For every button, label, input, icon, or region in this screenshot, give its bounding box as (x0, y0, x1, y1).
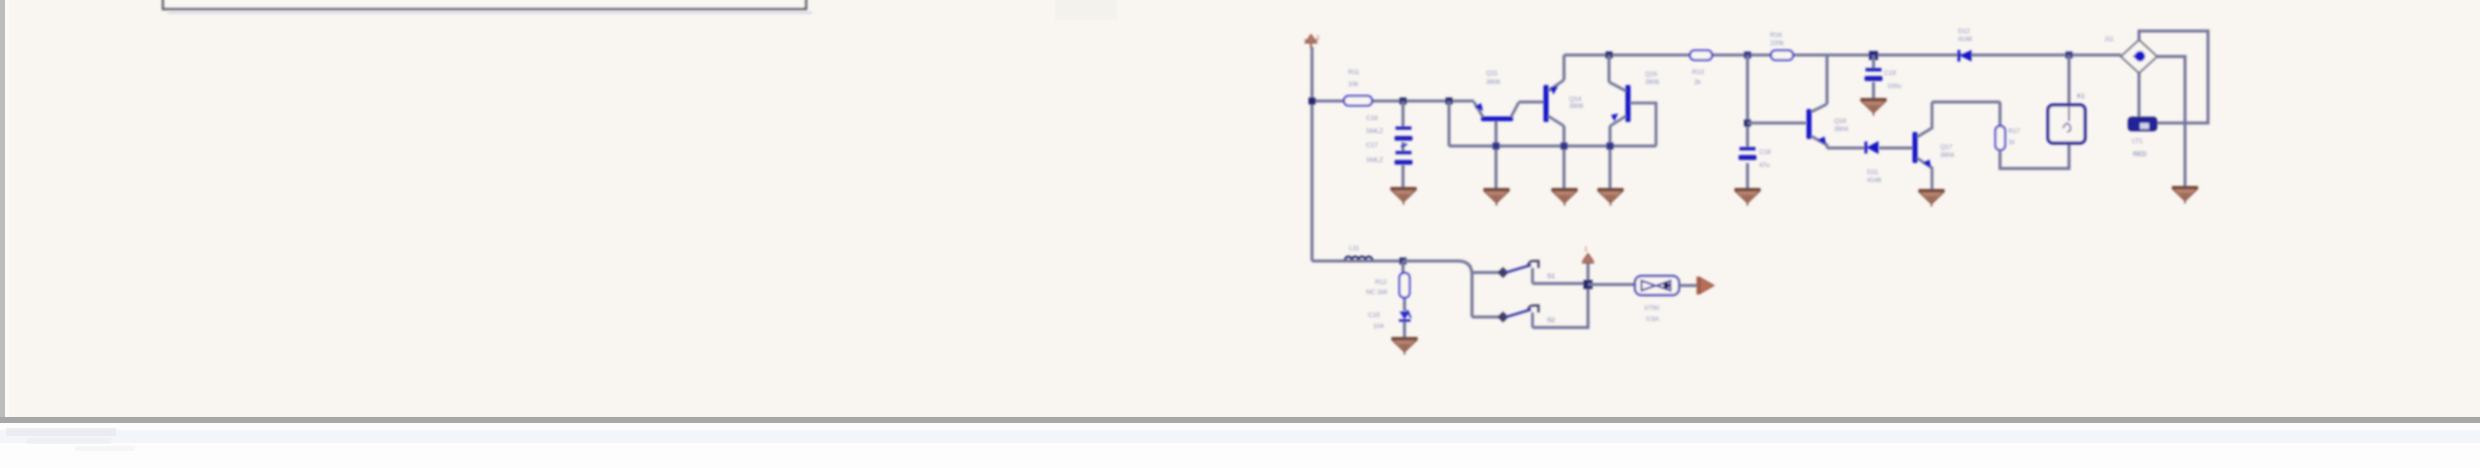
wire: Q16 emitter to D11 (1827, 147, 1866, 150)
wire: upper switch feed (1472, 271, 1499, 274)
wire: NTC branch stem (1403, 261, 1405, 337)
ground (Q17) (1919, 189, 1945, 207)
svg-text:D11: D11 (1867, 169, 1879, 176)
capacitor C19 (1865, 68, 1883, 81)
node: Q16 base junction (1744, 120, 1751, 127)
svg-text:R12: R12 (1375, 279, 1387, 286)
svg-text:C16: C16 (1366, 115, 1378, 122)
capacitor C16 (1395, 127, 1413, 141)
svg-text:2: 2 (1316, 35, 1320, 42)
svg-text:Q14: Q14 (1569, 96, 1581, 103)
svg-text:Q17: Q17 (1940, 144, 1952, 151)
wire: Q11 collector to Q14 base (1519, 101, 1544, 104)
wire: top rail (1564, 54, 2121, 57)
wire: lower switch feed (1472, 316, 1499, 319)
svg-text:4148: 4148 (1958, 36, 1972, 43)
svg-text:Q16: Q16 (1834, 118, 1846, 125)
title block box (top-left, cut off) (163, 0, 812, 14)
svg-text:NC 1k8: NC 1k8 (1366, 289, 1387, 296)
wire: C18 branch vertical (1746, 55, 1749, 188)
wire: diamond right to ground drop (2157, 57, 2185, 187)
node: rail junction at C18 branch (1744, 52, 1751, 59)
power port P2 (top of input) (1305, 35, 1318, 49)
svg-text:SMLZ: SMLZ (1366, 128, 1383, 135)
wire: relay stem (2068, 55, 2071, 106)
svg-text:3906: 3906 (1569, 103, 1583, 110)
svg-text:47u: 47u (1759, 162, 1770, 169)
wire: cap stack stem (1402, 101, 1405, 188)
wire: S2 output loop (1533, 285, 1589, 328)
svg-text:220k: 220k (1770, 40, 1784, 47)
svg-text:S1: S1 (1547, 273, 1555, 280)
wire: S1 output to node (1533, 282, 1589, 285)
svg-text:RED: RED (2133, 151, 2147, 158)
svg-text:3904: 3904 (1940, 152, 1954, 159)
transistor Q14 (PNP left of mirror) (1544, 55, 1565, 188)
node: input junction (1309, 98, 1316, 105)
svg-text:C15: C15 (1368, 312, 1380, 319)
node: Q14 emitter rail junction (1561, 143, 1568, 150)
ground (Q14) (1552, 188, 1578, 206)
wire: fuse to output port (1679, 284, 1698, 287)
svg-text:S2: S2 (1547, 317, 1555, 324)
node: switch output junction (1584, 280, 1593, 289)
capacitor C18 (1739, 147, 1757, 160)
svg-text:J11: J11 (2104, 36, 2114, 43)
wire: Q17 collector top link (1932, 101, 2000, 104)
relay K1 (2048, 105, 2085, 143)
wire: node to fuse (1588, 283, 1635, 286)
node: Q15 emitter rail junction (1607, 143, 1614, 150)
svg-text:D12: D12 (1958, 28, 1970, 35)
svg-text:1: 1 (1584, 246, 1588, 253)
svg-text:R11: R11 (1348, 69, 1360, 76)
wire: junction to switches (1403, 261, 1472, 317)
svg-text:R17: R17 (2008, 128, 2020, 135)
switch S1 (upper) (1498, 261, 1539, 284)
capacitor C17 (1395, 151, 1413, 165)
ground (Q15) (1598, 188, 1624, 206)
svg-text:R16: R16 (1770, 32, 1782, 39)
LED component (2129, 118, 2157, 131)
resistor R17 (vertical) (1996, 126, 2006, 150)
power port P1 (bottom) (1582, 254, 1594, 263)
svg-text:C17: C17 (1366, 142, 1378, 149)
svg-text:K1: K1 (2077, 93, 2085, 100)
node: rail junction at relay (2066, 52, 2073, 59)
ground (NTC branch) (1392, 337, 1418, 355)
svg-text:SMLZ: SMLZ (1366, 157, 1383, 164)
ground (right block) (2172, 186, 2198, 204)
ground (C19) (1861, 98, 1887, 116)
ground (C18) (1735, 188, 1761, 206)
node: base-rail branch junction (1446, 98, 1453, 105)
node: NTC junction (1400, 258, 1407, 265)
node: Q11 base rail junction (1493, 143, 1500, 150)
svg-text:3904: 3904 (1834, 126, 1848, 133)
wire: main input vertical (1311, 47, 1314, 261)
transistor Q16 (NPN) (1807, 55, 1828, 148)
bottom page border (0, 417, 2480, 423)
svg-text:3906: 3906 (1486, 79, 1500, 86)
node: rail junction at C19 (1869, 51, 1878, 60)
wire: to Q16 base (1748, 122, 1807, 125)
transistor Q11 (diode-connected PNP) (1474, 102, 1519, 188)
svg-text:3906: 3906 (1645, 79, 1659, 86)
svg-text:100u: 100u (1887, 83, 1901, 90)
diode D12 (on rail) (1958, 50, 1972, 62)
svg-text:L11: L11 (1349, 245, 1359, 252)
wire: link down to R17 (1999, 102, 2002, 126)
left window edge (0, 0, 5, 423)
wire: node up to port (1587, 263, 1590, 280)
svg-text:2k: 2k (1694, 79, 1701, 86)
current source J11 (diamond) (2121, 40, 2157, 73)
svg-text:104: 104 (1373, 323, 1384, 330)
wire: down to base rail (1448, 101, 1451, 146)
resistor R16 (on rail) (1771, 51, 1793, 61)
polarity mark (1401, 144, 1407, 147)
svg-text:0.5A: 0.5A (1646, 316, 1660, 323)
wire: diamond bottom to LED (2138, 73, 2141, 118)
inductor L11 (1345, 257, 1372, 260)
svg-text:R13: R13 (1692, 69, 1704, 76)
svg-text:Q15: Q15 (1645, 71, 1657, 78)
thermistor R12 (vertical) (1400, 273, 1410, 298)
svg-text:10k: 10k (1348, 81, 1359, 88)
capacitor labels (1366, 115, 1383, 164)
fuse F11 (1635, 276, 1679, 295)
ground (Q11) (1484, 188, 1510, 206)
svg-text:C18: C18 (1759, 149, 1771, 156)
wire: C19 stem (1872, 55, 1875, 98)
svg-text:1k: 1k (2008, 139, 2015, 146)
wire: D11 to Q17 base (1879, 147, 1913, 150)
svg-text:4148: 4148 (1867, 177, 1881, 184)
diode D11 (1865, 141, 1879, 154)
faint smudge top-middle (1055, 0, 1117, 20)
svg-text:XT50: XT50 (1644, 305, 1660, 312)
capacitor C15 (small) (1399, 310, 1411, 321)
node: cap branch junction (1400, 98, 1407, 105)
wire: R17 bottom loop to relay (2000, 143, 2069, 169)
faint band below border (0, 430, 2480, 443)
resistor R11 (1344, 96, 1372, 106)
lower circuit: corner + inductor wire (1312, 260, 1403, 263)
wire: base rail (1449, 145, 1656, 148)
wire: main input horizontal (1312, 100, 1474, 103)
resistor R13 (on rail) (1690, 51, 1712, 61)
wire: diamond top loop (2139, 31, 2208, 123)
transistor Q15 (PNP right of mirror) (1609, 55, 1656, 188)
svg-text:Q11: Q11 (1486, 70, 1498, 77)
svg-text:LT1: LT1 (2132, 138, 2143, 145)
output port arrow (1697, 277, 1715, 295)
switch S2 (lower) (1498, 305, 1539, 327)
node: top rail junction at Q15 (1606, 52, 1613, 59)
transistor Q17 (NPN) (1913, 102, 1933, 189)
svg-text:C19: C19 (1884, 70, 1896, 77)
ground (cap stack) (1391, 187, 1417, 205)
